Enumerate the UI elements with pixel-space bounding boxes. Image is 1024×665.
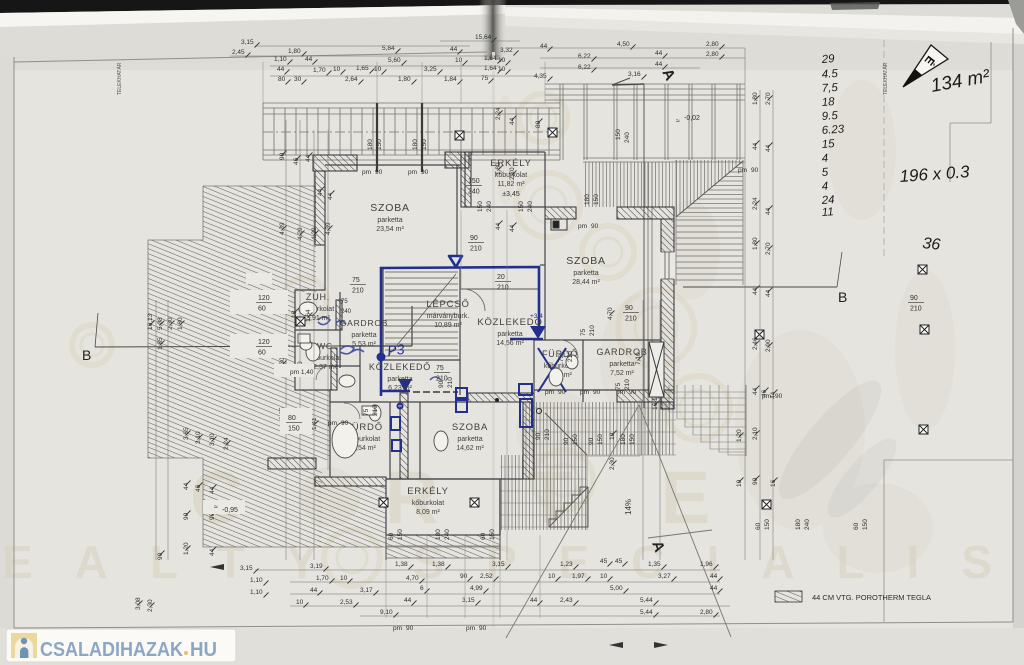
svg-text:7,10: 7,10 <box>635 352 642 365</box>
svg-text:parketta: parketta <box>609 361 634 368</box>
svg-text:44: 44 <box>710 585 718 592</box>
deck boards bottom center upper <box>524 402 676 455</box>
right dimension columns <box>495 92 777 487</box>
svg-text:1,20: 1,20 <box>736 429 743 442</box>
roof hatch left big <box>148 186 500 547</box>
blue pen rectangle annotation <box>381 267 543 396</box>
svg-text:5,44: 5,44 <box>640 597 653 604</box>
svg-text:44: 44 <box>317 188 324 196</box>
shaft box with X in east wall <box>649 342 664 397</box>
svg-text:pm 1,40: pm 1,40 <box>290 369 314 376</box>
svg-text:75: 75 <box>352 277 360 284</box>
svg-text:2,10: 2,10 <box>752 427 759 440</box>
svg-text:60: 60 <box>755 522 762 530</box>
compass north arrow <box>903 45 948 87</box>
svg-text:±3,45: ±3,45 <box>502 191 520 198</box>
svg-text:60: 60 <box>853 522 860 530</box>
svg-text:TELEKHATÁR: TELEKHATÁR <box>882 62 889 95</box>
svg-text:44: 44 <box>277 66 285 73</box>
svg-text:210: 210 <box>497 285 509 292</box>
svg-text:150: 150 <box>764 519 771 530</box>
svg-text:2,64: 2,64 <box>345 76 358 83</box>
thin interior walls <box>295 152 661 560</box>
svg-text:pm: pm <box>408 169 417 176</box>
svg-text:44: 44 <box>765 207 772 215</box>
svg-text:150: 150 <box>477 201 484 212</box>
svg-text:240: 240 <box>468 189 480 196</box>
svg-text:10: 10 <box>600 573 608 580</box>
svg-text:44: 44 <box>655 50 663 57</box>
small arrows bottom left <box>210 564 224 570</box>
svg-text:4,29: 4,29 <box>297 227 304 240</box>
logo csaladihazak.hu <box>6 629 236 662</box>
svg-text:pm: pm <box>580 389 589 396</box>
svg-text:parketta: parketta <box>351 332 376 339</box>
dim ticks <box>138 38 778 618</box>
svg-text:90: 90 <box>470 235 478 242</box>
svg-text:75: 75 <box>436 365 444 372</box>
svg-text:1,38: 1,38 <box>432 561 445 568</box>
svg-text:23,54 m²: 23,54 m² <box>376 226 404 233</box>
svg-text:44: 44 <box>509 117 516 125</box>
svg-text:210: 210 <box>372 405 379 416</box>
svg-text:4: 4 <box>821 153 828 165</box>
svg-text:44: 44 <box>752 387 759 395</box>
deck rotated labels <box>563 434 636 445</box>
wall bottom of GARDROB 7,52 <box>617 390 674 402</box>
svg-text:5,44: 5,44 <box>640 609 653 616</box>
svg-text:44: 44 <box>209 548 216 556</box>
svg-text:4,39: 4,39 <box>279 222 286 235</box>
svg-text:46: 46 <box>195 484 202 492</box>
svg-text:5,60: 5,60 <box>388 57 401 64</box>
handwritten column right <box>820 53 845 219</box>
svg-text:44: 44 <box>404 597 412 604</box>
svg-text:210: 210 <box>625 316 637 323</box>
svg-text:2,70: 2,70 <box>765 92 772 105</box>
svg-text:P3: P3 <box>386 341 405 359</box>
svg-text:210: 210 <box>447 377 454 388</box>
svg-text:3,17: 3,17 <box>360 587 373 594</box>
window posts top-left <box>377 103 422 172</box>
svg-text:150: 150 <box>597 434 604 445</box>
svg-text:90: 90 <box>535 432 542 440</box>
svg-text:80: 80 <box>288 415 296 422</box>
svg-text:parketta: parketta <box>497 331 522 338</box>
extension lines below to dims <box>263 62 545 618</box>
svg-text:44: 44 <box>765 144 772 152</box>
svg-text:44: 44 <box>752 287 759 295</box>
svg-text:4,70: 4,70 <box>406 575 419 582</box>
svg-text:6,23 m²: 6,23 m² <box>388 385 412 392</box>
svg-text:44: 44 <box>305 154 312 162</box>
svg-text:3,19: 3,19 <box>310 563 323 570</box>
wall stub right of ZUH <box>336 300 342 330</box>
paper top edge highlight left <box>0 5 505 27</box>
roof hatch bottom-left below balcony <box>318 486 386 547</box>
svg-text:45: 45 <box>600 558 608 565</box>
wall stub right <box>445 152 469 168</box>
svg-text:150: 150 <box>615 129 622 140</box>
svg-text:90: 90 <box>341 420 349 427</box>
svg-text:3,15: 3,15 <box>241 39 254 46</box>
svg-text:TELEKHATÁR: TELEKHATÁR <box>116 62 123 95</box>
svg-text:pm: pm <box>466 625 475 632</box>
svg-text:9,10: 9,10 <box>380 609 393 616</box>
wall right of ERKELY1 <box>461 152 471 207</box>
svg-text:2,90: 2,90 <box>765 339 772 352</box>
svg-text:B: B <box>82 347 91 363</box>
svg-text:44: 44 <box>183 482 190 490</box>
svg-text:210: 210 <box>470 246 482 253</box>
svg-text:1,10: 1,10 <box>250 577 263 584</box>
svg-text:9.5: 9.5 <box>821 110 838 123</box>
svg-text:45: 45 <box>615 558 623 565</box>
svg-text:1,85: 1,85 <box>157 337 164 350</box>
svg-text:90: 90 <box>279 152 286 160</box>
svg-text:90: 90 <box>157 552 164 560</box>
svg-text:10: 10 <box>291 310 298 318</box>
door sill symbol <box>551 219 567 230</box>
svg-text:+3,4: +3,4 <box>530 313 543 320</box>
svg-text:14%: 14% <box>624 499 633 515</box>
svg-text:KÖZLEKEDŐ: KÖZLEKEDŐ <box>369 362 431 372</box>
svg-text:44: 44 <box>655 61 663 68</box>
svg-text:6,22: 6,22 <box>578 64 591 71</box>
svg-text:210: 210 <box>436 376 448 383</box>
window gap in east wall <box>660 252 675 279</box>
wall between FURDO 9,54 and SZOBA 14,62 <box>400 393 408 479</box>
svg-text:240: 240 <box>341 309 352 315</box>
svg-text:90: 90 <box>406 625 414 632</box>
svg-text:14,56 m²: 14,56 m² <box>496 340 524 347</box>
svg-text:2,30: 2,30 <box>147 599 154 612</box>
svg-text:90: 90 <box>752 477 759 485</box>
svg-text:-0,02: -0,02 <box>684 115 700 122</box>
svg-text:7,52 m²: 7,52 m² <box>610 370 634 377</box>
top dim lines <box>230 41 745 76</box>
svg-text:44: 44 <box>209 486 216 494</box>
svg-text:90: 90 <box>629 389 637 396</box>
svg-text:90: 90 <box>910 295 918 302</box>
svg-text:90: 90 <box>421 169 429 176</box>
svg-text:150: 150 <box>489 529 496 540</box>
left dimension columns <box>135 152 334 612</box>
svg-text:240: 240 <box>527 201 534 212</box>
svg-text:60: 60 <box>258 306 266 313</box>
chimney wall top of SZOBA 28,44 <box>545 207 576 219</box>
svg-text:2,24: 2,24 <box>223 437 230 450</box>
svg-text:90: 90 <box>558 389 566 396</box>
svg-text:4,39: 4,39 <box>325 222 332 235</box>
blue small squares <box>391 384 532 451</box>
svg-text:44: 44 <box>509 224 516 232</box>
deck vertical strokes right of SZOBA2 <box>583 162 673 207</box>
svg-text:2,52: 2,52 <box>480 573 493 580</box>
svg-text:90: 90 <box>775 393 783 400</box>
wall top of SZOBA 14,62 <box>468 393 534 402</box>
pergola band top right <box>545 84 745 162</box>
svg-text:6,22: 6,22 <box>578 53 591 60</box>
svg-text:márványburk.: márványburk. <box>427 313 469 320</box>
svg-text:1,80: 1,80 <box>495 162 502 175</box>
svg-text:80: 80 <box>278 76 286 83</box>
svg-text:10: 10 <box>455 57 463 64</box>
svg-text:4.5: 4.5 <box>821 68 838 81</box>
svg-text:90: 90 <box>460 573 468 580</box>
balcony railing bottom <box>386 535 500 558</box>
svg-text:210: 210 <box>589 325 596 336</box>
svg-text:150: 150 <box>629 434 636 445</box>
svg-text:pm: pm <box>362 169 371 176</box>
svg-text:90: 90 <box>563 437 570 445</box>
svg-text:-0,95: -0,95 <box>222 507 238 514</box>
svg-text:44: 44 <box>450 46 458 53</box>
svg-text:90: 90 <box>593 389 601 396</box>
svg-text:29: 29 <box>820 53 835 66</box>
svg-text:ERKÉLY: ERKÉLY <box>407 486 449 497</box>
svg-text:kőburkolat: kőburkolat <box>412 500 444 507</box>
wall top right of SZOBA 28,44 <box>617 207 674 219</box>
dashed line right of blue corner <box>413 391 458 393</box>
svg-text:30: 30 <box>294 76 302 83</box>
svg-text:44: 44 <box>305 56 313 63</box>
svg-text:4,99: 4,99 <box>470 585 483 592</box>
svg-text:3,15: 3,15 <box>240 565 253 572</box>
svg-text:240: 240 <box>486 201 493 212</box>
svg-text:3,15: 3,15 <box>492 561 505 568</box>
svg-text:pm: pm <box>616 389 625 396</box>
svg-text:GARDROB: GARDROB <box>340 318 389 328</box>
svg-text:75: 75 <box>558 354 565 362</box>
svg-text:10: 10 <box>340 575 348 582</box>
scanner black top bar <box>0 0 1024 13</box>
thick east wall <box>661 219 674 409</box>
svg-text:1,96: 1,96 <box>700 561 713 568</box>
svg-text:10: 10 <box>736 479 743 487</box>
svg-text:2,53: 2,53 <box>340 599 353 606</box>
wall bottom-left of FURDO <box>268 458 316 469</box>
svg-text:24: 24 <box>820 194 835 207</box>
svg-text:90: 90 <box>751 167 759 174</box>
wall bottom of FURDO 9,54 <box>315 477 386 486</box>
paper top edge highlight right <box>505 7 1024 36</box>
svg-text:60: 60 <box>480 532 487 540</box>
svg-text:10,89 m²: 10,89 m² <box>434 322 462 329</box>
svg-text:75: 75 <box>580 328 587 336</box>
svg-text:parketta: parketta <box>377 217 402 224</box>
svg-text:180: 180 <box>435 529 442 540</box>
section line B right <box>683 286 837 288</box>
roof hatch upper right hip <box>676 160 743 217</box>
svg-text:150: 150 <box>593 194 600 205</box>
svg-text:3,10: 3,10 <box>195 431 202 444</box>
svg-text:180: 180 <box>795 519 802 530</box>
svg-text:2,46: 2,46 <box>752 337 759 350</box>
svg-text:≈: ≈ <box>676 118 680 125</box>
bathroom fixtures <box>298 302 578 458</box>
svg-text:2,70: 2,70 <box>509 167 516 180</box>
svg-text:44: 44 <box>710 573 718 580</box>
svg-text:3,08: 3,08 <box>135 597 142 610</box>
svg-text:2,80: 2,80 <box>700 609 713 616</box>
svg-text:2,24: 2,24 <box>752 197 759 210</box>
svg-text:240: 240 <box>444 529 451 540</box>
svg-text:4: 4 <box>821 181 828 193</box>
wall stub right of WC <box>331 348 337 390</box>
svg-text:5,00: 5,00 <box>610 585 623 592</box>
svg-text:pm: pm <box>328 420 337 427</box>
stains <box>494 80 955 573</box>
svg-text:pm: pm <box>393 625 402 632</box>
svg-text:180: 180 <box>584 194 591 205</box>
svg-text:2,43: 2,43 <box>560 597 573 604</box>
blue survey triangles <box>377 256 547 392</box>
wall stub top-left of SZOBA 23,54 <box>313 155 357 171</box>
white callout boxes in hatch <box>203 273 314 514</box>
svg-text:1,70: 1,70 <box>316 575 329 582</box>
svg-text:parketta: parketta <box>457 436 482 443</box>
svg-text:16: 16 <box>770 479 777 487</box>
section line B left <box>95 346 340 347</box>
svg-text:1,80: 1,80 <box>398 76 411 83</box>
KOZLEKEDO north wall <box>461 288 540 290</box>
outdoor stair diagonals bottom center <box>545 413 588 527</box>
legend porotherm <box>775 591 802 602</box>
svg-text:SZOBA: SZOBA <box>566 255 606 267</box>
svg-text:4,70: 4,70 <box>607 307 614 320</box>
svg-text:3,16: 3,16 <box>628 71 641 78</box>
svg-text:18: 18 <box>821 96 835 109</box>
svg-text:3,25: 3,25 <box>424 66 437 73</box>
svg-text:SZOBA: SZOBA <box>370 202 410 214</box>
svg-text:1,80: 1,80 <box>177 317 184 330</box>
svg-text:90: 90 <box>588 437 595 445</box>
svg-text:5,08: 5,08 <box>157 317 164 330</box>
svg-text:90: 90 <box>479 625 487 632</box>
svg-text:180: 180 <box>412 139 419 150</box>
svg-text:7,5: 7,5 <box>821 82 838 95</box>
svg-text:150: 150 <box>862 519 869 530</box>
wall left of SZOBA 23,54 <box>315 171 325 245</box>
svg-text:210: 210 <box>352 288 364 295</box>
svg-text:11,82 m²: 11,82 m² <box>497 181 525 188</box>
pergola band top left <box>263 103 560 160</box>
svg-text:1,97: 1,97 <box>572 573 585 580</box>
svg-text:pm: pm <box>738 167 747 174</box>
svg-text:11: 11 <box>821 206 834 219</box>
svg-text:1,80: 1,80 <box>752 92 759 105</box>
svg-text:150: 150 <box>397 529 404 540</box>
svg-text:10: 10 <box>548 573 556 580</box>
blue scribbles near WC <box>318 317 441 380</box>
wall right of SZOBA 14,62 <box>523 402 534 479</box>
svg-text:120: 120 <box>258 339 270 346</box>
svg-text:150: 150 <box>288 426 300 433</box>
deck boards bottom center lower <box>500 455 587 530</box>
svg-text:240: 240 <box>804 519 811 530</box>
svg-text:180: 180 <box>620 434 627 445</box>
svg-text:210: 210 <box>567 351 574 362</box>
svg-text:4,29: 4,29 <box>311 227 318 240</box>
svg-text:2,70: 2,70 <box>765 242 772 255</box>
svg-text:10: 10 <box>333 66 341 73</box>
svg-text:5,53 m²: 5,53 m² <box>352 341 376 348</box>
svg-text:HU: HU <box>190 639 217 661</box>
left dim vertical lines <box>156 120 328 560</box>
svg-text:1,70: 1,70 <box>313 67 326 74</box>
svg-text:1,35: 1,35 <box>648 561 661 568</box>
svg-text:210: 210 <box>544 429 551 440</box>
svg-text:60: 60 <box>388 532 395 540</box>
blue X cross over FURDO <box>538 348 566 392</box>
svg-text:180: 180 <box>367 139 374 150</box>
svg-text:2,45: 2,45 <box>232 49 245 56</box>
svg-text:6.23: 6.23 <box>821 123 845 137</box>
svg-text:150: 150 <box>572 434 579 445</box>
svg-text:10: 10 <box>498 57 506 64</box>
svg-text:75: 75 <box>363 408 370 416</box>
svg-text:44: 44 <box>530 597 538 604</box>
svg-text:80: 80 <box>535 120 542 128</box>
svg-text:1,41: 1,41 <box>311 417 318 430</box>
svg-text:1,10: 1,10 <box>274 56 287 63</box>
svg-text:120: 120 <box>258 295 270 302</box>
svg-text:8,09 m²: 8,09 m² <box>416 509 440 516</box>
svg-text:14,62 m²: 14,62 m² <box>456 445 484 452</box>
property boundary lines right <box>884 40 1013 622</box>
svg-text:44: 44 <box>540 43 548 50</box>
svg-text:15,64: 15,64 <box>475 34 492 41</box>
svg-text:3,65: 3,65 <box>183 427 190 440</box>
svg-text:90: 90 <box>625 305 633 312</box>
svg-text:44: 44 <box>765 289 772 297</box>
svg-text:44 CM VTG. POROTHERM TEGLA: 44 CM VTG. POROTHERM TEGLA <box>812 593 931 602</box>
svg-text:210: 210 <box>910 306 922 313</box>
svg-text:2,37 m²: 2,37 m² <box>313 364 337 371</box>
svg-text:1,84: 1,84 <box>444 76 457 83</box>
svg-text:6: 6 <box>420 585 424 592</box>
boxed-X posts <box>455 131 464 140</box>
svg-text:4,50: 4,50 <box>617 41 630 48</box>
svg-text:20: 20 <box>497 274 505 281</box>
svg-text:90: 90 <box>375 169 383 176</box>
svg-text:2,24: 2,24 <box>495 107 502 120</box>
svg-text:B: B <box>838 289 847 305</box>
svg-text:46: 46 <box>293 157 300 165</box>
svg-text:pm: pm <box>762 393 771 400</box>
svg-text:LÉPCSŐ: LÉPCSŐ <box>426 299 469 310</box>
svg-text:1,38: 1,38 <box>395 561 408 568</box>
svg-text:1,80: 1,80 <box>752 237 759 250</box>
tiny circles fittings <box>495 398 499 402</box>
svg-text:44: 44 <box>495 222 502 230</box>
svg-text:1,10: 1,10 <box>250 589 263 596</box>
svg-text:150: 150 <box>421 139 428 150</box>
svg-text:150: 150 <box>376 139 383 150</box>
svg-text:parketta: parketta <box>387 376 412 383</box>
section A bottom V lines <box>506 405 731 638</box>
section line A vertical <box>612 78 644 408</box>
svg-text:75: 75 <box>341 299 348 305</box>
svg-text:3,10: 3,10 <box>209 433 216 446</box>
door swing arcs <box>316 289 578 419</box>
svg-text:10: 10 <box>609 432 616 440</box>
stairs LEPCSO treads <box>385 272 458 356</box>
svg-text:parketta: parketta <box>573 270 598 277</box>
svg-text:10: 10 <box>296 599 304 606</box>
svg-text:≈: ≈ <box>214 504 218 511</box>
